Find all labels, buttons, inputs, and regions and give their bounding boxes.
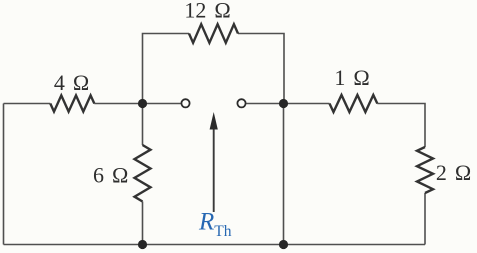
wire 4-ohm to left terminal: [94, 103, 180, 105]
wire bottom rail: [4, 244, 426, 246]
arrow RTh: [210, 112, 218, 212]
svg-text:4 Ω: 4 Ω: [54, 70, 89, 95]
wire right rail lower: [424, 193, 426, 245]
node A junction dot: [138, 99, 147, 108]
node bottom-left junction dot: [138, 240, 147, 249]
resistor 6-ohm zigzag: [135, 145, 151, 202]
node bottom-right junction dot: [279, 240, 288, 249]
terminal b open circle: [237, 99, 245, 107]
wire right terminal to node B: [246, 103, 283, 105]
resistor 1-ohm zigzag: [330, 95, 378, 112]
resistor 12-ohm zigzag: [189, 24, 238, 43]
wire left top: rail to 4-ohm: [4, 103, 51, 105]
wire node B to 1-ohm: [284, 103, 330, 105]
wire left rail: [3, 104, 5, 245]
wire 6-ohm top lead: [142, 104, 144, 146]
resistor 2-ohm zigzag: [417, 147, 433, 193]
wire node B down: [283, 104, 285, 245]
svg-text:2 Ω: 2 Ω: [436, 160, 471, 185]
svg-text:12 Ω: 12 Ω: [184, 0, 230, 22]
terminal a open circle: [181, 99, 189, 107]
svg-text:1 Ω: 1 Ω: [334, 65, 369, 90]
wire top loop right: [238, 34, 284, 104]
svg-text:6 Ω: 6 Ω: [93, 163, 128, 188]
node B junction dot: [279, 99, 288, 108]
resistor 4-ohm zigzag: [50, 95, 94, 111]
wire 1-ohm to right corner: [377, 104, 425, 148]
wire 6-ohm bottom lead: [142, 202, 144, 245]
wire top loop left: [143, 34, 190, 104]
